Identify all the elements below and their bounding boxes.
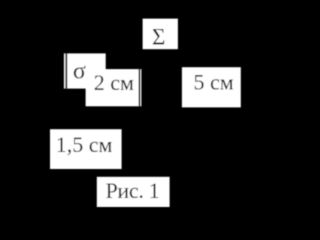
wire: vertical plane line crossing 2 см box <box>139 69 141 106</box>
label box 1,5 см <box>50 129 122 169</box>
wire: vertical plane line crossing σ box <box>65 53 67 88</box>
label box Σ (plane Sigma) <box>143 19 178 50</box>
label box σ (surface charge density) <box>64 53 106 88</box>
caption box Рис. 1 <box>97 177 170 207</box>
label box 2 см <box>86 69 142 106</box>
svg-text:σ: σ <box>73 59 86 85</box>
label box 5 см <box>182 67 241 107</box>
svg-text:1,5 см: 1,5 см <box>56 132 113 157</box>
svg-text:5 см: 5 см <box>194 70 234 95</box>
svg-text:2 см: 2 см <box>94 70 134 95</box>
svg-text:Σ: Σ <box>152 25 165 50</box>
background (transparent in source, stored black) <box>0 0 247 210</box>
svg-text:Рис. 1: Рис. 1 <box>106 178 160 203</box>
